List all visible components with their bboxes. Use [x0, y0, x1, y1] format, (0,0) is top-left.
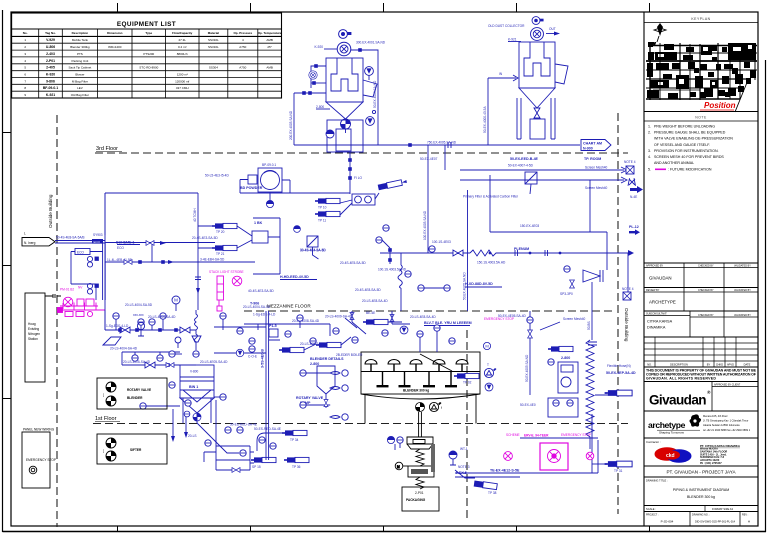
inst left of bin [169, 351, 175, 357]
left nozzle upper [311, 66, 326, 88]
svg-text:Type: Type [145, 31, 152, 35]
outside building boundary right [617, 113, 619, 514]
svg-text:WITH VALVE ENABLING DE-PRESSUR: WITH VALVE ENABLING DE-PRESSURIZATION [654, 137, 733, 141]
frame tick top 1 [117, 3, 119, 12]
left instrument [309, 71, 317, 79]
svg-text:2-P01: 2-P01 [415, 491, 424, 495]
svg-text:BD POWDER: BD POWDER [240, 186, 263, 190]
hopper 9-806 [326, 102, 363, 119]
SEC-FLOORS [48, 113, 629, 527]
svg-text:PTS: PTS [77, 52, 83, 56]
svg-text:300.EX.4001.SA.ND: 300.EX.4001.SA.ND [356, 41, 386, 45]
svg-text:1.: 1. [648, 125, 651, 129]
svg-text:Screen Mesh40: Screen Mesh40 [563, 317, 586, 321]
svg-text:EMERGENCY STOP: EMERGENCY STOP [561, 433, 591, 437]
1st floor line [93, 423, 628, 425]
SEC-BLENDER [361, 317, 598, 511]
discharge valve old [534, 108, 540, 118]
platform symbol [103, 337, 121, 345]
lev ls instrument [527, 317, 533, 323]
svg-text:C-O-E: C-O-E [248, 355, 257, 359]
svg-text:OUT: OUT [549, 27, 556, 31]
svg-text:120000 mf: 120000 mf [175, 79, 189, 83]
SEC-RIGHT [425, 145, 636, 473]
blower outlet pipe [351, 50, 378, 145]
drop through floor [591, 414, 593, 473]
svg-text:DID-GIV-DWG-DJD-PP-001-PL-014: DID-GIV-DWG-DJD-PP-001-PL-014 [695, 521, 736, 524]
bp outlet inst [266, 200, 273, 207]
svg-text:APVD: APVD [727, 363, 734, 367]
svg-text:40 TCMH: 40 TCMH [193, 208, 197, 222]
svg-text:WT-1: WT-1 [460, 447, 468, 451]
side rail [431, 444, 435, 472]
svg-text:FI LO: FI LO [354, 176, 362, 180]
bottom collect pipe [455, 440, 598, 473]
svg-text:CHKD: CHKD [716, 363, 723, 367]
duct bars [588, 342, 597, 345]
plenum line extension [380, 252, 425, 254]
frame tick left 2 [3, 265, 12, 267]
svg-text:CHART AM: CHART AM [583, 142, 602, 146]
svg-text:CITRA KARSA: CITRA KARSA [647, 320, 673, 324]
gauge with base [137, 322, 144, 329]
magenta pushbutton 2 [586, 452, 594, 460]
bag motor [395, 462, 408, 470]
drop instrument [193, 351, 199, 357]
plenum loop [490, 175, 607, 270]
svg-text:PLENUM: PLENUM [514, 247, 529, 251]
svg-text:ROTARY VALVE: ROTARY VALVE [127, 388, 151, 392]
svg-text:K-920: K-920 [46, 73, 55, 77]
svg-text:2-P01: 2-P01 [46, 59, 55, 63]
sp15 rotameter [251, 457, 276, 462]
svg-text:27.3L: 27.3L [178, 38, 186, 42]
outside building boundary left [56, 115, 58, 527]
svg-text:PT. GIVAUDAN - PROJECT JAYA: PT. GIVAUDAN - PROJECT JAYA [666, 470, 736, 475]
carbon filter [525, 172, 537, 184]
svg-text:Hoag: Hoag [28, 322, 36, 326]
svg-text:xxx-xxx: xxx-xxx [133, 313, 144, 317]
svg-text:0.4 m³: 0.4 m³ [178, 45, 187, 49]
frame tick top 4 [516, 3, 518, 12]
svg-text:PRE-WEIGHT BEFORE UNLOADING: PRE-WEIGHT BEFORE UNLOADING [654, 125, 715, 129]
svg-text:Screen Mesh40: Screen Mesh40 [585, 166, 608, 170]
svg-text:ECO: ECO [77, 250, 84, 254]
svg-text:Station: Station [28, 337, 38, 341]
svg-text:DESCRIPTION: DESCRIPTION [670, 363, 688, 367]
svg-text:150.1S.4003.5A.HD: 150.1S.4003.5A.HD [477, 261, 506, 265]
blender legs [365, 394, 476, 424]
svg-text:BLENDER 300 kg: BLENDER 300 kg [687, 495, 715, 499]
N2 inert pennant [22, 238, 55, 246]
svg-text:1st Floor: 1st Floor [95, 416, 117, 422]
frame tick left 3 [3, 398, 12, 400]
frame tick top 2 [250, 3, 252, 12]
wall boundary center [466, 330, 468, 520]
svg-text:Jakarta Selatan 12560 Indones: Jakarta Selatan 12560 Indonesia [703, 424, 740, 427]
riser from 750 duct [428, 145, 445, 253]
svg-text:BLENDER 300 kg: BLENDER 300 kg [403, 389, 429, 393]
svg-text:Screen Mesh40: Screen Mesh40 [585, 186, 608, 190]
old blower [531, 28, 544, 41]
mid inst 2 [405, 271, 411, 277]
mid cluster above blender [244, 324, 330, 336]
contractor box [644, 437, 758, 439]
support pads [377, 372, 389, 388]
frame tick bottom 2 [250, 526, 252, 532]
outlet xbox A [626, 166, 634, 174]
svg-text:TP 31: TP 31 [614, 469, 623, 473]
bin instruments [169, 382, 175, 388]
contractor logo [655, 447, 680, 461]
V-800 hopper [180, 398, 214, 413]
svg-text:KEYPLAN: KEYPLAN [691, 17, 710, 21]
svg-text:TE-EX-4E12-S-5E: TE-EX-4E12-S-5E [490, 469, 520, 473]
svg-text:20-4S-4E5-SA-5D: 20-4S-4E5-SA-5D [340, 261, 366, 265]
svg-text:20-LS-4004-SA-4D: 20-LS-4004-SA-4D [110, 347, 138, 351]
bin to pipe connectors [214, 327, 280, 353]
svg-text:SIFTER: SIFTER [130, 448, 142, 452]
svg-text:5.: 5. [648, 168, 651, 172]
BP-09 fan [261, 171, 280, 190]
left feed vertical extend [104, 193, 106, 330]
gauge [175, 337, 181, 343]
inst at discharge left [184, 411, 190, 417]
svg-text:Flexible Hose(N): Flexible Hose(N) [607, 364, 631, 368]
svg-text:N. Inerg: N. Inerg [24, 241, 36, 245]
riser 40TCMH [197, 193, 199, 310]
svg-text:BY: BY [707, 363, 711, 367]
svg-text:50.EX.4003.SA.ND: 50.EX.4003.SA.ND [373, 80, 377, 108]
frame tick top 5 [649, 3, 651, 12]
rotameter links [198, 226, 252, 248]
fan motor [339, 30, 352, 39]
svg-text:20-LS-4004-SA-5D: 20-LS-4004-SA-5D [125, 303, 153, 307]
frame tick bottom 4 [516, 526, 518, 532]
svg-text:437 CMH: 437 CMH [176, 86, 189, 90]
stack light [217, 276, 224, 311]
svg-text:LEV: LEV [77, 86, 83, 90]
spout spring lower [416, 477, 424, 489]
n2 header pipe [57, 309, 105, 311]
svg-text:[: [ [103, 449, 104, 453]
bird screen [628, 178, 636, 186]
sack tip cabinet 2-405 [327, 120, 363, 152]
svg-text:SP3-3P0: SP3-3P0 [560, 292, 573, 296]
pump right lower [366, 117, 375, 126]
svg-text:200.EX.4003.SA.ND: 200.EX.4003.SA.ND [289, 110, 293, 140]
svg-text:EQUIPMENT LIST: EQUIPMENT LIST [117, 21, 176, 28]
ejector valve [570, 280, 575, 288]
lev inst [548, 359, 554, 365]
V-800 legs [183, 398, 211, 423]
svg-text:GIVAUDAN: GIVAUDAN [649, 276, 672, 281]
rotary valve dc1 [341, 119, 351, 129]
drum old [530, 119, 545, 139]
SEC-DC2 [483, 17, 611, 161]
strobe beacon [232, 276, 242, 286]
svg-text:1-Sg-EDE-4-LD: 1-Sg-EDE-4-LD [253, 313, 276, 317]
svg-text:V-800: V-800 [190, 370, 199, 374]
exhaust line A [460, 167, 627, 173]
link lines [304, 318, 402, 350]
svg-text:Sack Tip Cabinet: Sack Tip Cabinet [69, 66, 92, 70]
svg-text:Existing: Existing [28, 327, 39, 331]
svg-text:50-EX-4007-4-5D: 50-EX-4007-4-5D [508, 164, 534, 168]
tp36 rotameter [284, 457, 309, 462]
svg-text:2.: 2. [648, 131, 651, 135]
ejector instrument [564, 266, 570, 272]
tp34 rotameter [282, 430, 307, 435]
mid instruments column [383, 225, 389, 231]
V-800 bin [180, 365, 214, 398]
panel box [22, 432, 50, 488]
svg-text:50-ES-RED-SA-4E: 50-ES-RED-SA-4E [230, 423, 257, 427]
svg-text:50.EX.4005.SA.ND: 50.EX.4005.SA.ND [525, 354, 529, 382]
svg-text:NOTE 3: NOTE 3 [458, 465, 470, 469]
svg-text:DRAWING NO. :: DRAWING NO. : [692, 513, 710, 516]
svg-text:VALIDATED BY: VALIDATED BY [734, 289, 751, 292]
svg-text:2-405: 2-405 [46, 66, 55, 70]
svg-text:A750: A750 [239, 45, 246, 49]
mixer box [252, 231, 268, 243]
svg-text:AMB: AMB [266, 38, 273, 42]
discharge valve [416, 403, 425, 412]
keyplan floor plan [646, 23, 757, 112]
cabinet inner [336, 129, 351, 151]
svg-text:2-403: 2-403 [46, 52, 55, 56]
svg-text:PROJECT :: PROJECT : [646, 513, 659, 516]
flex joint zigzag [470, 250, 500, 256]
mezzanine floor line [244, 310, 616, 312]
svg-text:V-929: V-929 [46, 38, 55, 42]
lev valve [528, 330, 533, 338]
blender frame [361, 352, 480, 394]
svg-text:NOTE: NOTE [695, 116, 707, 120]
SEC-TITLEBLOCK [644, 12, 758, 526]
svg-text:N-900: N-900 [583, 147, 593, 151]
links rotameters [250, 433, 285, 463]
svg-text:PANEL NEW WIRING: PANEL NEW WIRING [23, 428, 55, 432]
svg-text:DRAWING TITLE :: DRAWING TITLE : [646, 479, 668, 483]
frame tick bottom 5 [649, 526, 651, 532]
svg-text:No.: No. [23, 31, 28, 35]
svg-text:BLENDER: BLENDER [127, 396, 143, 400]
existing nitrogen station [25, 293, 45, 382]
spout head [407, 437, 433, 444]
silencer TP11 [315, 211, 340, 216]
svg-text:ECO: ECO [117, 246, 124, 250]
svg-text:REVIEW BY: REVIEW BY [646, 289, 660, 292]
mid instruments [352, 337, 358, 343]
right cigar lower [605, 461, 633, 467]
svg-text:SP 15: SP 15 [252, 465, 261, 469]
svg-text:SCHEME: SCHEME [506, 433, 520, 437]
outlet xbox B [623, 292, 631, 300]
svg-text:: FUTURE MODIFICATION: : FUTURE MODIFICATION [668, 168, 712, 172]
svg-text:8800L/h: 8800L/h [177, 52, 188, 56]
svg-text:FORMAT SIZE A3: FORMAT SIZE A3 [712, 507, 734, 511]
SEC-BOTTOM [105, 152, 468, 330]
outer border left [2, 10, 4, 532]
svg-text:150-EX-4E03: 150-EX-4E03 [520, 224, 539, 228]
svg-text:20-4S-4E8-SA-5D: 20-4S-4E8-SA-5D [355, 288, 381, 292]
svg-text:SCREEN MESH 40 FOR PREVENT BIR: SCREEN MESH 40 FOR PREVENT BIRDS [654, 155, 724, 159]
svg-text:PL-12: PL-12 [629, 225, 639, 229]
svg-text:20-LS-4E04-SA-4D: 20-LS-4E04-SA-4D [148, 315, 176, 319]
scale row [644, 505, 758, 507]
svg-text:M: M [397, 465, 400, 469]
approval rows [644, 262, 758, 264]
svg-text:3rd Floor: 3rd Floor [96, 146, 118, 152]
svg-text:H-XD-88D-8V-5D: H-XD-88D-8V-5D [465, 282, 493, 286]
svg-text:AND ANOTHER ANIMAL: AND ANOTHER ANIMAL [654, 161, 694, 165]
header instruments [113, 313, 119, 319]
svg-text:OF VESSEL AND GAUGE ITSELF.: OF VESSEL AND GAUGE ITSELF. [654, 143, 710, 147]
lev unit [558, 362, 578, 393]
future regulator cluster [58, 297, 99, 316]
svg-text:TP 11: TP 11 [318, 219, 326, 223]
inlet pipe old [488, 75, 518, 81]
svg-text:3.: 3. [648, 149, 651, 153]
drop to mezz [400, 253, 402, 311]
svg-text:K-920: K-920 [314, 45, 323, 49]
svg-text:PIPING & INSTRUMENT DIAGRAM: PIPING & INSTRUMENT DIAGRAM [673, 488, 729, 492]
frame tick left 1 [3, 132, 12, 134]
V-800 discharge valve [193, 413, 201, 421]
flex squiggle mid [398, 265, 402, 288]
svg-text:L: L [24, 232, 26, 236]
svg-text:50-EX-4E07: 50-EX-4E07 [420, 157, 438, 161]
station link [45, 294, 61, 298]
SEC-DC1 [289, 30, 580, 152]
svg-text:REV :: REV : [742, 513, 749, 516]
lev cigar [548, 346, 573, 351]
svg-text:Outside Building: Outside Building [624, 308, 629, 342]
svg-text:[: [ [103, 393, 104, 397]
svg-text:4.: 4. [648, 155, 651, 159]
gas train links [71, 252, 103, 301]
svg-text:T: T [487, 363, 489, 367]
svg-text:AMB: AMB [266, 66, 273, 70]
svg-text:ckd: ckd [666, 453, 675, 459]
svg-text:A750: A750 [239, 66, 246, 70]
plenum main line [425, 252, 628, 254]
svg-text:2-800: 2-800 [316, 105, 324, 109]
svg-text:PACKAGING: PACKAGING [406, 498, 426, 502]
svg-text:CHECKED BY: CHECKED BY [698, 314, 714, 317]
inlet box BP [248, 175, 257, 184]
old dust collector body K-921 [519, 42, 555, 88]
svg-text:Outside Building: Outside Building [48, 194, 53, 228]
slanted silencer [378, 179, 408, 191]
chart am arrow [581, 140, 611, 151]
svg-text:M Bag Filter: M Bag Filter [72, 79, 88, 83]
filter bag profile [331, 58, 358, 91]
cigar mid1 [363, 319, 388, 324]
svg-text:Old Bag Filter: Old Bag Filter [71, 93, 89, 97]
eco box 3 [87, 283, 98, 294]
mid riser [467, 190, 469, 311]
svg-text:SCALE :: SCALE : [646, 507, 656, 511]
ECO tag upper [92, 239, 103, 244]
magenta estop box [540, 443, 568, 470]
old inlet riser [487, 78, 489, 145]
lev silencer [474, 480, 498, 489]
svg-text:EMERGENCY STOP: EMERGENCY STOP [26, 458, 56, 462]
svg-text:1200 m³: 1200 m³ [177, 73, 188, 77]
svg-text:2-800: 2-800 [310, 362, 319, 366]
lower header [122, 352, 196, 365]
eco box 1 [75, 249, 90, 255]
bottom distribution [216, 446, 250, 470]
svg-text:TP 38: TP 38 [488, 491, 497, 495]
motor M [172, 296, 180, 304]
svg-text:APPROVED BY CLIENT: APPROVED BY CLIENT [714, 383, 741, 386]
svg-text:20-4S-4E3-SA-5D: 20-4S-4E3-SA-5D [192, 236, 218, 240]
atex tag [429, 402, 441, 412]
svg-text:STACK LIGHT STROBE: STACK LIGHT STROBE [209, 270, 244, 274]
blue instruments at discharge [387, 436, 394, 443]
svg-text:20-LS-4009-SA-4D: 20-LS-4009-SA-4D [325, 315, 353, 319]
SEC-MID [22, 310, 408, 488]
BP-09 unit frame [258, 168, 282, 192]
lower mid instruments [418, 285, 424, 291]
note header [644, 111, 758, 113]
margin arrow A [630, 186, 643, 193]
svg-text:50-EX-4E05-SA-4D: 50-EX-4E05-SA-4D [498, 314, 527, 318]
SEC-LEFT [22, 163, 290, 382]
side duct flap [363, 80, 377, 97]
cabinet motor [326, 130, 334, 138]
downcomer arrows [171, 432, 188, 442]
svg-text:K-921: K-921 [46, 93, 55, 97]
svg-text:K-921: K-921 [508, 38, 517, 42]
svg-text:ECO: ECO [94, 240, 101, 244]
svg-text:BIN 1: BIN 1 [189, 385, 198, 389]
svg-text:DATE: DATE [744, 363, 751, 367]
lower header extras [122, 351, 180, 353]
sifter box [97, 434, 167, 464]
svg-text:20-LS-4E8-SA-4D: 20-LS-4E8-SA-4D [362, 299, 388, 303]
svg-text:TP 02: TP 02 [463, 381, 472, 385]
bin fill funnel lines [180, 390, 214, 402]
main n2 distribution [105, 243, 255, 263]
svg-text:TP 21: TP 21 [216, 252, 225, 256]
svg-text:100.1S.4003.5g.HD: 100.1S.4003.5g.HD [378, 268, 407, 272]
svg-text:Jl. TB Simatupang Kav. 1 Cilan: Jl. TB Simatupang Kav. 1 Cilandak Timur [703, 420, 749, 423]
nozzle teardrops [330, 372, 340, 419]
cigar mid2 [316, 342, 341, 347]
svg-text:3-5S-4E0-B: 3-5S-4E0-B [261, 349, 265, 368]
BP link [240, 180, 290, 194]
svg-text:50.BS: 50.BS [587, 321, 591, 330]
svg-text:P-JD-004: P-JD-004 [661, 520, 674, 524]
svg-text:Position: Position [704, 101, 736, 110]
stand legs old [517, 98, 555, 139]
svg-text:30-4S-4E4-SA-5D: 30-4S-4E4-SA-5D [300, 249, 326, 253]
ejector nozzle [583, 270, 603, 282]
svg-text:50-L5-4E3-I5-4D: 50-L5-4E3-I5-4D [205, 174, 229, 178]
emergency stop enclosure [455, 438, 598, 477]
mezz bold underline [424, 325, 470, 327]
svg-text:T-906: T-906 [250, 302, 259, 306]
svg-text:H: H [748, 520, 750, 524]
outer border bottom [3, 531, 767, 533]
svg-text:STC-RD-8900: STC-RD-8900 [139, 66, 158, 70]
svg-text:50-EX-4000-43-5A: 50-EX-4000-43-5A [483, 106, 487, 133]
svg-text:PTS200: PTS200 [143, 52, 154, 56]
